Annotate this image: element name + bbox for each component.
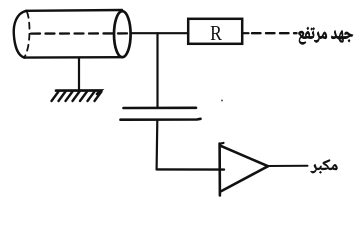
capacitor C bottom plate [121, 118, 201, 121]
ground hatch strokes [52, 92, 59, 102]
ground bar [56, 90, 101, 94]
resistor R1 box [188, 19, 242, 44]
amplifier triangle left edge [218, 144, 221, 196]
label: high voltage (Arabic jahd murtafi) [299, 27, 354, 45]
wire tube anode to resistor [131, 32, 189, 34]
wire from tube cathode down to ground [78, 58, 80, 90]
amplifier output wire [268, 165, 308, 167]
detector tube right end cap ellipse [114, 11, 131, 57]
amplifier triangle top edge [220, 146, 268, 167]
wire to amplifier input [157, 168, 224, 171]
stray ink speck [221, 100, 223, 102]
detector tube (cylinder) body top line [26, 9, 122, 12]
wire stub right of resistor [243, 32, 249, 34]
detector tube body bottom line [24, 56, 122, 59]
dashed lead to high-voltage supply [252, 32, 297, 34]
wire capacitor down [156, 121, 159, 170]
detector tube left end cap hidden back edge (dashed) [25, 12, 30, 57]
detector tube left end cap front arc [14, 11, 27, 58]
detector tube dashed axis line [31, 32, 127, 34]
capacitor C top plate [124, 107, 197, 110]
svg-text:R: R [210, 21, 223, 45]
node junction wire down to capacitor [156, 33, 158, 107]
amplifier top-left corner tick [220, 142, 224, 145]
label: amplifier (Arabic mukabbir) [311, 160, 338, 174]
amplifier triangle bottom edge [221, 166, 268, 191]
